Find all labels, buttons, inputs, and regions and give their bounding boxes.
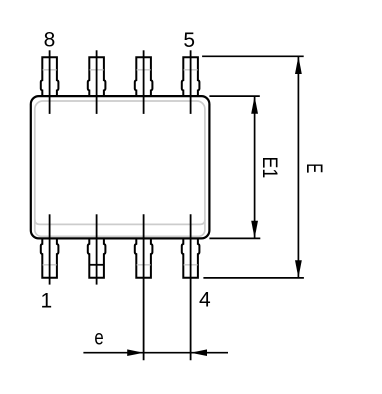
E extension line top (202, 55, 304, 57)
package body outer outline (31, 96, 210, 238)
svg-text:E1: E1 (257, 157, 281, 179)
E extension line bottom (203, 277, 304, 279)
pin 3 (bottom row) (135, 238, 153, 277)
e arrow right (tip at pin3 line) (127, 349, 143, 356)
E1 arrow up (251, 96, 258, 114)
pin 2 (bottom row) (88, 238, 106, 277)
E1 arrow down (251, 221, 258, 239)
svg-text:4: 4 (199, 288, 211, 311)
pin 5 (top row) (182, 57, 200, 96)
svg-text:5: 5 (183, 29, 195, 52)
E1 extension line top (209, 95, 259, 97)
e arrow left (tip at pin4 line) (191, 349, 207, 356)
pin 1 (bottom row) (41, 238, 59, 277)
e dimension line (83, 352, 228, 354)
svg-text:1: 1 (40, 290, 52, 313)
package body inner (top-surface) outline (35, 101, 205, 236)
pin 4 (bottom row) (182, 238, 200, 277)
E1 dimension line (254, 96, 256, 238)
svg-text:E: E (303, 163, 328, 173)
svg-text:e: e (94, 327, 103, 350)
E arrow up (295, 56, 302, 74)
pin 6 (top row) (135, 57, 153, 96)
E1 extension line bottom (209, 237, 260, 239)
E arrow down (295, 260, 302, 278)
svg-text:8: 8 (44, 29, 56, 52)
body chamfer line (pin-1 side) (35, 220, 205, 225)
pin 8 (top row) (41, 57, 59, 96)
pin 7 (top row) (88, 57, 106, 96)
E dimension line (297, 56, 299, 278)
